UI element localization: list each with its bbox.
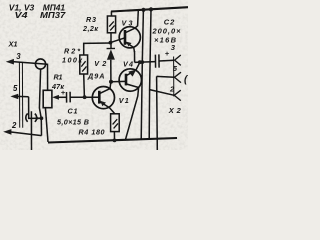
wire shield tail to ground node	[39, 69, 41, 118]
connector X1 pin5 arrow	[10, 94, 28, 99]
node dot R2/V3 junction	[109, 41, 113, 45]
connector X1 body lines	[19, 62, 22, 127]
connector X1 pin2 arrow	[3, 129, 41, 136]
svg-text:V4: V4	[15, 10, 28, 20]
resistor R4	[111, 114, 120, 132]
wire C2 to X2 pin 3	[159, 59, 174, 62]
svg-text:2: 2	[11, 121, 17, 130]
svg-text:R4 180: R4 180	[79, 127, 105, 136]
wire R4 to bottom bus	[113, 132, 115, 141]
capacitor C2	[155, 54, 159, 67]
R1 wiper arrowhead	[52, 95, 59, 100]
output wire to C2	[135, 61, 156, 64]
svg-text:+: +	[165, 49, 170, 58]
X2 pin 3 socket	[175, 55, 181, 65]
node dot V4 emitter junction	[138, 60, 142, 64]
svg-text:200,0×: 200,0×	[152, 26, 182, 35]
wire C1 to R1 wiper arrow	[58, 96, 67, 98]
wire R2 bottom to C1-V1 wire	[83, 74, 86, 97]
svg-text:5: 5	[13, 84, 18, 93]
wire pin2 to X2	[150, 90, 175, 96]
svg-text:R2*: R2*	[64, 47, 81, 56]
svg-text:3: 3	[16, 52, 21, 61]
node dot A on top bus	[141, 8, 145, 12]
svg-text:2: 2	[169, 85, 175, 94]
svg-text:R1: R1	[54, 73, 63, 82]
svg-text:X1: X1	[8, 40, 18, 49]
wire vertical supply line	[141, 10, 143, 140]
transistor V3	[110, 10, 140, 52]
X2 pin 5 socket	[174, 72, 181, 82]
svg-text:C1: C1	[68, 106, 78, 115]
svg-text:+: +	[61, 88, 66, 97]
node dot R4 bus	[113, 139, 117, 143]
wire R3 bottom to diode	[110, 33, 112, 49]
svg-text:2,2к: 2,2к	[82, 24, 98, 33]
connector X1 pin3 arrow	[6, 59, 48, 65]
wire vertical pin5 line	[156, 76, 159, 150]
svg-text:R3: R3	[86, 15, 96, 24]
wire R1 bottom to bus	[45, 108, 48, 142]
top supply bus	[111, 7, 188, 11]
capacitor C1	[67, 92, 71, 103]
diode V2	[107, 48, 115, 59]
wire vertical pin2 line	[149, 10, 151, 140]
node dot R2 bottom junction	[83, 95, 87, 99]
shield circle input	[35, 59, 45, 69]
node dot supply crossing	[140, 60, 144, 64]
bottom bus	[48, 138, 177, 143]
X2 pin 2 socket	[174, 90, 181, 100]
svg-text:Д9А: Д9А	[87, 72, 105, 81]
node dot B on top bus	[149, 7, 153, 11]
resistor R2	[80, 55, 88, 74]
wire bus to R3 top	[110, 11, 112, 16]
potentiometer R1	[43, 90, 52, 107]
wire V4 collector down to bottom bus	[125, 88, 138, 141]
wire pin2 up to shield node	[40, 118, 42, 135]
wire C1 to V1 base	[70, 96, 99, 98]
wire pin5 down and to shield ground	[29, 97, 42, 119]
resistor R3	[107, 16, 115, 33]
wire V3 emitter down to output node	[134, 51, 136, 62]
wire diode to node C	[110, 60, 112, 82]
svg-text:C2: C2	[164, 18, 175, 27]
wire R1 top lead	[46, 64, 48, 90]
node dot shield ground	[40, 116, 44, 120]
node dot C (V1 collector / V4 base)	[109, 80, 113, 84]
wire shielded line down	[30, 111, 32, 150]
wire junction to R2 top	[84, 43, 111, 55]
svg-text:5,0×15 В: 5,0×15 В	[57, 117, 89, 126]
wire V1 emitter to R4	[110, 108, 115, 114]
connector X2 body line	[173, 57, 175, 97]
svg-text:100к: 100к	[62, 55, 82, 64]
shield ground arrowhead	[36, 117, 41, 121]
transistor V1	[92, 82, 114, 109]
svg-text:МП37: МП37	[40, 10, 67, 20]
wire pin5 to X2	[157, 75, 175, 78]
shield circle output wire	[26, 114, 37, 122]
transistor V4	[111, 62, 142, 91]
